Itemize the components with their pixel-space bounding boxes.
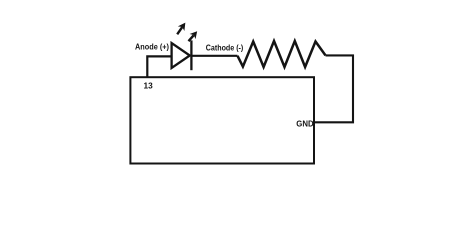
svg-text:Cathode (-): Cathode (-) [206,44,244,53]
wire pin13 to LED anode [147,56,171,77]
LED light arrow 2 [186,29,201,44]
wire cathode to resistor [191,55,237,57]
LED D1 triangle (anode) [172,43,190,68]
resistor R1 zigzag [238,41,326,67]
wire resistor to corner [314,55,353,122]
LED light arrow 1 [174,20,189,36]
LED cathode bar [190,40,192,70]
microcontroller board U1 [130,77,314,163]
svg-text:GND: GND [296,120,314,129]
svg-text:13: 13 [144,81,154,91]
svg-text:Anode (+): Anode (+) [135,43,169,52]
